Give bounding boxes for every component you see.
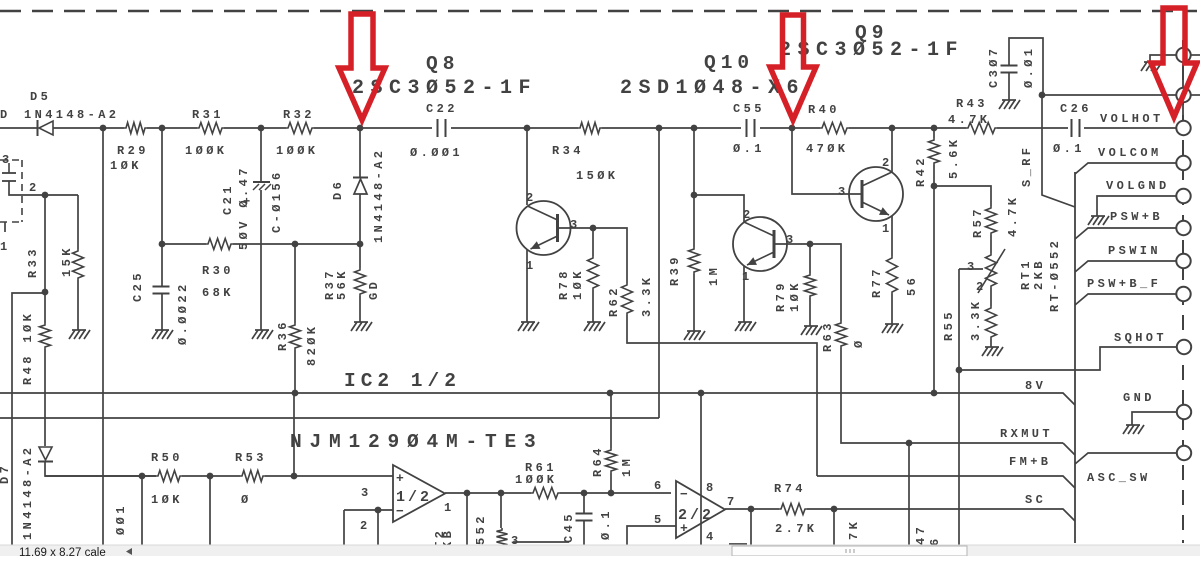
wire ASC_SW — [1075, 453, 1176, 464]
svg-text:1ØØK: 1ØØK — [185, 144, 227, 158]
resistor R32 — [286, 123, 314, 134]
wire pin2 of filter — [9, 189, 78, 195]
svg-text:R40: R40 — [808, 103, 840, 117]
junction y476 x142 — [139, 473, 146, 480]
thermistor RT1 — [986, 253, 997, 288]
wire R65 bottom — [513, 541, 569, 543]
wire pad1 to edge — [1191, 54, 1200, 56]
wire opamp1 minus input — [344, 509, 393, 511]
wire R78 top — [592, 228, 594, 256]
wire x501 down — [500, 493, 502, 528]
svg-text:Q8: Q8 — [426, 53, 459, 75]
svg-text:4.7K: 4.7K — [948, 113, 990, 127]
junction 8V x934 — [931, 390, 938, 397]
pad VOLHOT — [1176, 121, 1190, 135]
pad S_RF — [1176, 88, 1190, 102]
capacitor C55 — [747, 119, 755, 137]
wire R57 to RT1 — [990, 235, 992, 253]
wire x360 mid — [359, 194, 361, 268]
svg-text:R39: R39 — [668, 254, 682, 286]
wire R78 to ground — [592, 290, 594, 322]
junction y244 x162 — [159, 241, 166, 248]
partial ground pin4 — [729, 543, 747, 545]
wire to R57 — [934, 186, 991, 206]
svg-text:2KB: 2KB — [1032, 258, 1046, 290]
pad VOLCOM — [1176, 156, 1190, 170]
svg-text:GND: GND — [1123, 391, 1155, 405]
svg-text:56: 56 — [905, 275, 919, 296]
wire minus L down — [343, 510, 345, 546]
wire R37 to ground — [359, 296, 361, 322]
annotation red arrow 2 — [770, 15, 816, 120]
resistor R62 — [622, 283, 633, 315]
svg-text:6: 6 — [928, 535, 942, 546]
svg-text:D7: D7 — [0, 463, 12, 484]
op-amp IC2a — [393, 465, 445, 522]
ground under R37 — [351, 322, 372, 331]
svg-text:2.7K: 2.7K — [775, 522, 817, 536]
svg-text:RT-Ø552: RT-Ø552 — [1048, 238, 1062, 312]
resistor R36 — [290, 323, 301, 350]
pad SQHOT — [1177, 340, 1191, 354]
ground under 15K — [69, 330, 90, 339]
diode D7 — [38, 447, 53, 462]
svg-text:R33: R33 — [26, 246, 40, 278]
svg-text:2: 2 — [976, 280, 987, 294]
svg-text:47: 47 — [914, 524, 928, 545]
svg-text:R29: R29 — [117, 144, 149, 158]
svg-text:PSWIN: PSWIN — [1108, 244, 1161, 258]
junction y128 x892 — [889, 125, 896, 132]
junction y493 x611 — [608, 490, 615, 497]
svg-text:C25: C25 — [131, 270, 145, 302]
wire RT1 to R55 — [990, 288, 992, 306]
svg-text:5: 5 — [654, 513, 665, 527]
svg-text:2: 2 — [360, 519, 371, 533]
svg-text:C-Ø156: C-Ø156 — [270, 169, 284, 233]
wire D7 to y476 — [45, 461, 156, 476]
junction S_RF — [1039, 92, 1046, 99]
svg-text:1M: 1M — [707, 265, 721, 286]
wire FM+B — [817, 476, 1075, 488]
junction y476 x210 — [207, 473, 214, 480]
capacitor C26 — [1072, 119, 1080, 137]
wire opamp2 output — [725, 508, 779, 510]
svg-text:2: 2 — [882, 156, 893, 170]
svg-text:RXMUT: RXMUT — [1000, 427, 1053, 441]
resistor R37 — [355, 268, 366, 296]
junction out x467 — [464, 490, 471, 497]
junction minus x378 — [375, 507, 382, 514]
svg-text:Ø: Ø — [852, 337, 866, 348]
resistor R57 — [986, 206, 997, 235]
svg-text:R48 1ØK: R48 1ØK — [21, 311, 35, 385]
svg-text:56K: 56K — [335, 268, 349, 300]
wire S_RF down — [1042, 95, 1075, 207]
ground under C307 — [999, 100, 1020, 109]
svg-text:1/2: 1/2 — [396, 489, 432, 506]
svg-text:1ØK: 1ØK — [110, 159, 142, 173]
svg-text:3: 3 — [361, 486, 372, 500]
svg-text:11.69 x 8.27 cale: 11.69 x 8.27 cale — [19, 547, 106, 556]
wire x162 to C25 — [161, 244, 163, 286]
wire RXMUT diag — [1063, 443, 1075, 455]
svg-text:8: 8 — [706, 481, 717, 495]
wire main y128 seg5 — [314, 127, 432, 129]
junction Q10 base x810 — [807, 241, 814, 248]
svg-text:1: 1 — [444, 501, 455, 515]
wire Q9 emitter — [891, 216, 893, 256]
resistor R77 — [887, 256, 898, 294]
wire R64 top — [610, 393, 612, 448]
svg-text:3: 3 — [967, 260, 978, 274]
wire VOLGND — [1097, 196, 1176, 216]
resistor R65 partial — [497, 528, 508, 548]
svg-text:552: 552 — [474, 513, 488, 545]
svg-text:7: 7 — [727, 495, 738, 509]
wire Q8 emitter — [526, 250, 528, 322]
wire base to R62 — [593, 228, 627, 283]
junction y128 x360 — [357, 125, 364, 132]
op-amp IC2b — [676, 481, 725, 538]
pad chain link — [1182, 62, 1184, 122]
junction 8V x701 — [698, 390, 705, 397]
wire x834 down — [833, 509, 835, 546]
junction 8V x295 — [292, 390, 299, 397]
resistor R30 — [206, 239, 233, 250]
svg-text:IC2 1/2: IC2 1/2 — [344, 370, 461, 392]
annotation red arrow 1 — [339, 14, 385, 120]
svg-text:82ØK: 82ØK — [305, 324, 319, 366]
junction x934 y186 — [931, 183, 938, 190]
ground under R77 — [882, 324, 903, 333]
junction y128 x261 — [258, 125, 265, 132]
svg-text:Ø.1: Ø.1 — [599, 508, 613, 540]
wire x103 vertical — [102, 128, 104, 546]
svg-text:−: − — [396, 504, 404, 519]
wire VOLCOM — [1075, 163, 1176, 174]
wire Q8 base — [557, 227, 593, 229]
wire 15K to ground — [77, 280, 79, 330]
ground under Q10 — [735, 322, 756, 331]
svg-text:3.3K: 3.3K — [969, 299, 983, 341]
wire R63 to RXMUT route — [841, 348, 1063, 443]
svg-text:Ø.Ø1: Ø.Ø1 — [1022, 46, 1036, 88]
ground under R39 — [684, 331, 705, 340]
junction y244 x295 — [292, 241, 299, 248]
wire RT1 tap — [959, 268, 983, 270]
ground under C21 branch — [252, 330, 273, 339]
junction SQHOT tap — [956, 367, 963, 374]
thermistor RT1 strike — [978, 249, 1005, 293]
resistor R40 — [820, 123, 849, 134]
svg-text:R32: R32 — [283, 108, 315, 122]
pad PSW+B_F — [1176, 287, 1190, 301]
svg-text:D5: D5 — [30, 90, 51, 104]
wire x295 lower — [294, 350, 296, 393]
wire x360 upper — [359, 128, 361, 177]
wire x142 down — [141, 476, 143, 546]
resistor R29 — [124, 123, 147, 134]
wire main y128 seg1 — [0, 127, 37, 129]
svg-text:VOLHOT: VOLHOT — [1100, 112, 1164, 126]
wire C45 bottom — [583, 521, 585, 546]
svg-text:1N4148-A2: 1N4148-A2 — [21, 445, 35, 540]
svg-text:+: + — [396, 471, 404, 486]
pad GND-top — [1176, 48, 1190, 62]
svg-text:8V: 8V — [1025, 379, 1046, 393]
svg-text:4.7K: 4.7K — [1006, 195, 1020, 237]
ground VOLGND — [1088, 216, 1109, 225]
resistor R74 — [779, 504, 807, 515]
svg-text:C22: C22 — [426, 102, 458, 116]
svg-text:R64: R64 — [591, 445, 605, 477]
svg-text:1M: 1M — [620, 456, 634, 477]
svg-text:−: − — [680, 487, 688, 502]
wire Q10 collector — [694, 195, 744, 222]
capacitor C307 — [1001, 66, 1018, 73]
diode D5 — [38, 120, 54, 136]
wire x909 vertical — [908, 443, 910, 546]
wire main y128 seg11 — [1084, 127, 1176, 129]
ground under Q8 — [518, 322, 539, 331]
svg-text:3: 3 — [570, 218, 581, 232]
wire R61 to opamp2 — [560, 492, 671, 494]
svg-text:R53: R53 — [235, 451, 267, 465]
svg-text:1: 1 — [0, 240, 11, 254]
wire x210 down — [209, 476, 211, 546]
wire y476 seg2 — [182, 475, 240, 477]
svg-text:ASC_SW: ASC_SW — [1087, 471, 1151, 485]
junction y128 x659 — [656, 125, 663, 132]
svg-text:Ø.1: Ø.1 — [733, 142, 765, 156]
wire opamp2 plus input — [627, 526, 676, 546]
wire pad2 to edge — [1191, 94, 1200, 96]
svg-text:R78: R78 — [557, 268, 571, 300]
junction filter-R48 — [42, 192, 49, 199]
svg-text:GD: GD — [367, 279, 381, 300]
junction RXMUT x909 — [906, 440, 913, 447]
junction y244 x360 — [357, 241, 364, 248]
svg-text:4: 4 — [706, 530, 717, 544]
ground top right — [1141, 62, 1162, 71]
junction out2 x751 — [748, 506, 755, 513]
svg-text:1ØØK: 1ØØK — [515, 473, 557, 487]
resistor R61 — [531, 488, 560, 499]
wire R77 to ground — [891, 294, 893, 324]
svg-text:Q10: Q10 — [704, 52, 754, 74]
status bar left arrow — [126, 548, 132, 555]
resistor R53 — [240, 471, 265, 482]
resistor R31 — [197, 123, 224, 134]
wire R79 to ground — [809, 298, 811, 326]
resistor R43 — [966, 123, 997, 134]
svg-text:Ø: Ø — [241, 493, 252, 507]
resistor R63 — [836, 321, 847, 348]
wire y476 input — [45, 475, 156, 477]
capacitor C22 — [438, 119, 446, 137]
svg-text:R31: R31 — [192, 108, 224, 122]
pad VOLGND — [1176, 189, 1190, 203]
svg-text:C26: C26 — [1060, 102, 1092, 116]
wire x162 vertical — [161, 128, 163, 244]
wire x261 lower — [260, 190, 262, 330]
wire opamp2 supply — [700, 393, 702, 546]
svg-text:47ØK: 47ØK — [806, 142, 848, 156]
transistor Q10 — [733, 217, 787, 271]
svg-text:Ø.ØØ1: Ø.ØØ1 — [410, 146, 463, 160]
svg-text:R30: R30 — [202, 264, 234, 278]
pad ASC_SW — [1177, 446, 1191, 460]
wire Q9 collector — [891, 128, 893, 172]
svg-text:R34: R34 — [552, 144, 584, 158]
junction y128 x103 — [100, 125, 107, 132]
wire PSWIN — [1075, 261, 1176, 272]
svg-text:R36: R36 — [276, 319, 290, 351]
wire main y128 seg3 — [147, 127, 197, 129]
wire R55 to ground — [990, 339, 992, 347]
svg-text:15K: 15K — [60, 245, 74, 277]
svg-text:R63: R63 — [821, 320, 835, 352]
wire main y128 seg9 — [849, 127, 966, 129]
svg-text:15ØK: 15ØK — [576, 169, 618, 183]
diode D6 — [353, 178, 368, 195]
svg-text:1ØK: 1ØK — [151, 493, 183, 507]
svg-text:NJM129Ø4M-TE3: NJM129Ø4M-TE3 — [290, 431, 544, 453]
wire corner to 15K — [77, 195, 79, 249]
wire to R63 — [810, 244, 841, 321]
svg-text:VOLGND: VOLGND — [1106, 179, 1170, 193]
svg-text:D6: D6 — [331, 179, 345, 200]
capacitor C45 — [576, 514, 593, 521]
resistor R39 — [689, 247, 700, 274]
svg-text:C45: C45 — [562, 511, 576, 543]
resistor R33 15K — [73, 249, 84, 280]
wire x261 upper — [260, 128, 262, 181]
filter element plates — [2, 163, 16, 189]
junction y128 x694 — [691, 125, 698, 132]
wire GND pad — [1132, 412, 1176, 425]
wire C45 top — [583, 493, 585, 513]
shield box dashed (filter) — [0, 160, 22, 222]
svg-text:R55: R55 — [942, 309, 956, 341]
wire x295 upper — [294, 244, 296, 323]
resistor R48 — [40, 323, 51, 349]
wire x294 link — [293, 393, 295, 476]
wire x467 down — [466, 493, 468, 546]
svg-text:1N4148-A2: 1N4148-A2 — [24, 108, 119, 122]
wire main y128 seg8 — [760, 127, 820, 129]
wire R39 top — [693, 128, 695, 247]
wire main y128 seg6 — [451, 127, 578, 129]
svg-text:S_RF: S_RF — [1020, 145, 1034, 187]
resistor R55 — [986, 306, 997, 339]
junction x45-y292 — [42, 289, 49, 296]
wire SC route — [807, 509, 1075, 521]
junction y128 x162 — [159, 125, 166, 132]
wire PSW+B_F — [1075, 294, 1176, 305]
wire x659 long vertical — [658, 128, 660, 418]
wire y476 seg3 — [265, 475, 393, 477]
wire y244 — [162, 243, 206, 245]
svg-text:7K: 7K — [847, 519, 861, 540]
wire main y128 seg2 — [53, 127, 124, 129]
svg-text:2: 2 — [29, 181, 40, 195]
wire Q8 collector — [526, 128, 528, 205]
page right dashed border — [1182, 40, 1184, 543]
wire main y128 seg7 — [602, 127, 741, 129]
svg-text:5ØV Ø.47: 5ØV Ø.47 — [237, 165, 251, 250]
junction y493 x584 — [581, 490, 588, 497]
page top dashed border — [0, 10, 1197, 13]
resistor R34 — [578, 123, 602, 134]
svg-text:6: 6 — [654, 479, 665, 493]
bus line — [1074, 172, 1076, 543]
wire pin1 stub — [4, 222, 6, 232]
resistor R79 — [805, 273, 816, 298]
wire C307 bracket — [1009, 38, 1043, 95]
wire main y128 seg4 — [224, 127, 286, 129]
svg-text:5.6K: 5.6K — [947, 137, 961, 179]
svg-text:3: 3 — [786, 233, 797, 247]
svg-text:SC: SC — [1025, 493, 1046, 507]
junction y128 x792 — [789, 125, 796, 132]
junction out x501 — [498, 490, 505, 497]
wire R64 bottom — [610, 473, 612, 493]
svg-text:D: D — [0, 108, 11, 122]
svg-text:2SC3Ø52-1F: 2SC3Ø52-1F — [779, 39, 964, 62]
junction Q10 collector tap — [691, 192, 698, 199]
resistor R42 — [929, 138, 940, 165]
ground GND pad — [1123, 425, 1144, 434]
svg-text:3.3K: 3.3K — [640, 275, 654, 317]
wire SQHOT route — [959, 347, 1176, 370]
svg-text:R79: R79 — [774, 280, 788, 312]
pad PSW+B — [1176, 221, 1190, 235]
svg-text:C21: C21 — [221, 183, 235, 215]
status bar — [0, 545, 1200, 556]
scrollbar thumb — [732, 546, 967, 556]
capacitor C21 polarized — [253, 182, 271, 190]
svg-text:R62: R62 — [607, 285, 621, 317]
wire Q10 base — [774, 243, 810, 245]
svg-text:SQHOT: SQHOT — [1114, 331, 1167, 345]
pad GND — [1177, 405, 1191, 419]
svg-text:1ØK: 1ØK — [788, 280, 802, 312]
svg-text:1N4148-A2: 1N4148-A2 — [372, 148, 386, 243]
svg-text:R74: R74 — [774, 482, 806, 496]
svg-text:C3Ø7: C3Ø7 — [987, 46, 1001, 88]
svg-text:2: 2 — [526, 191, 537, 205]
wire opamp1 output — [445, 492, 531, 494]
wire PSW+B — [1075, 228, 1176, 239]
wire R39 to ground — [693, 274, 695, 331]
wire y418 — [0, 417, 659, 419]
svg-text:68K: 68K — [202, 286, 234, 300]
ground under C25 — [152, 330, 173, 339]
svg-text:1ØØK: 1ØØK — [276, 144, 318, 158]
wire R42 bottom to 8V — [933, 165, 935, 394]
wire 8V — [0, 393, 1075, 405]
wire Q9 base route — [792, 128, 862, 194]
svg-text:R50: R50 — [151, 451, 183, 465]
junction SC x834 — [831, 506, 838, 513]
svg-text:1ØK: 1ØK — [571, 268, 585, 300]
wire R79 top — [809, 244, 811, 273]
annotation red arrow 3 — [1151, 8, 1197, 117]
wire C25 to ground — [161, 293, 163, 330]
svg-text:PSW+B: PSW+B — [1110, 210, 1163, 224]
